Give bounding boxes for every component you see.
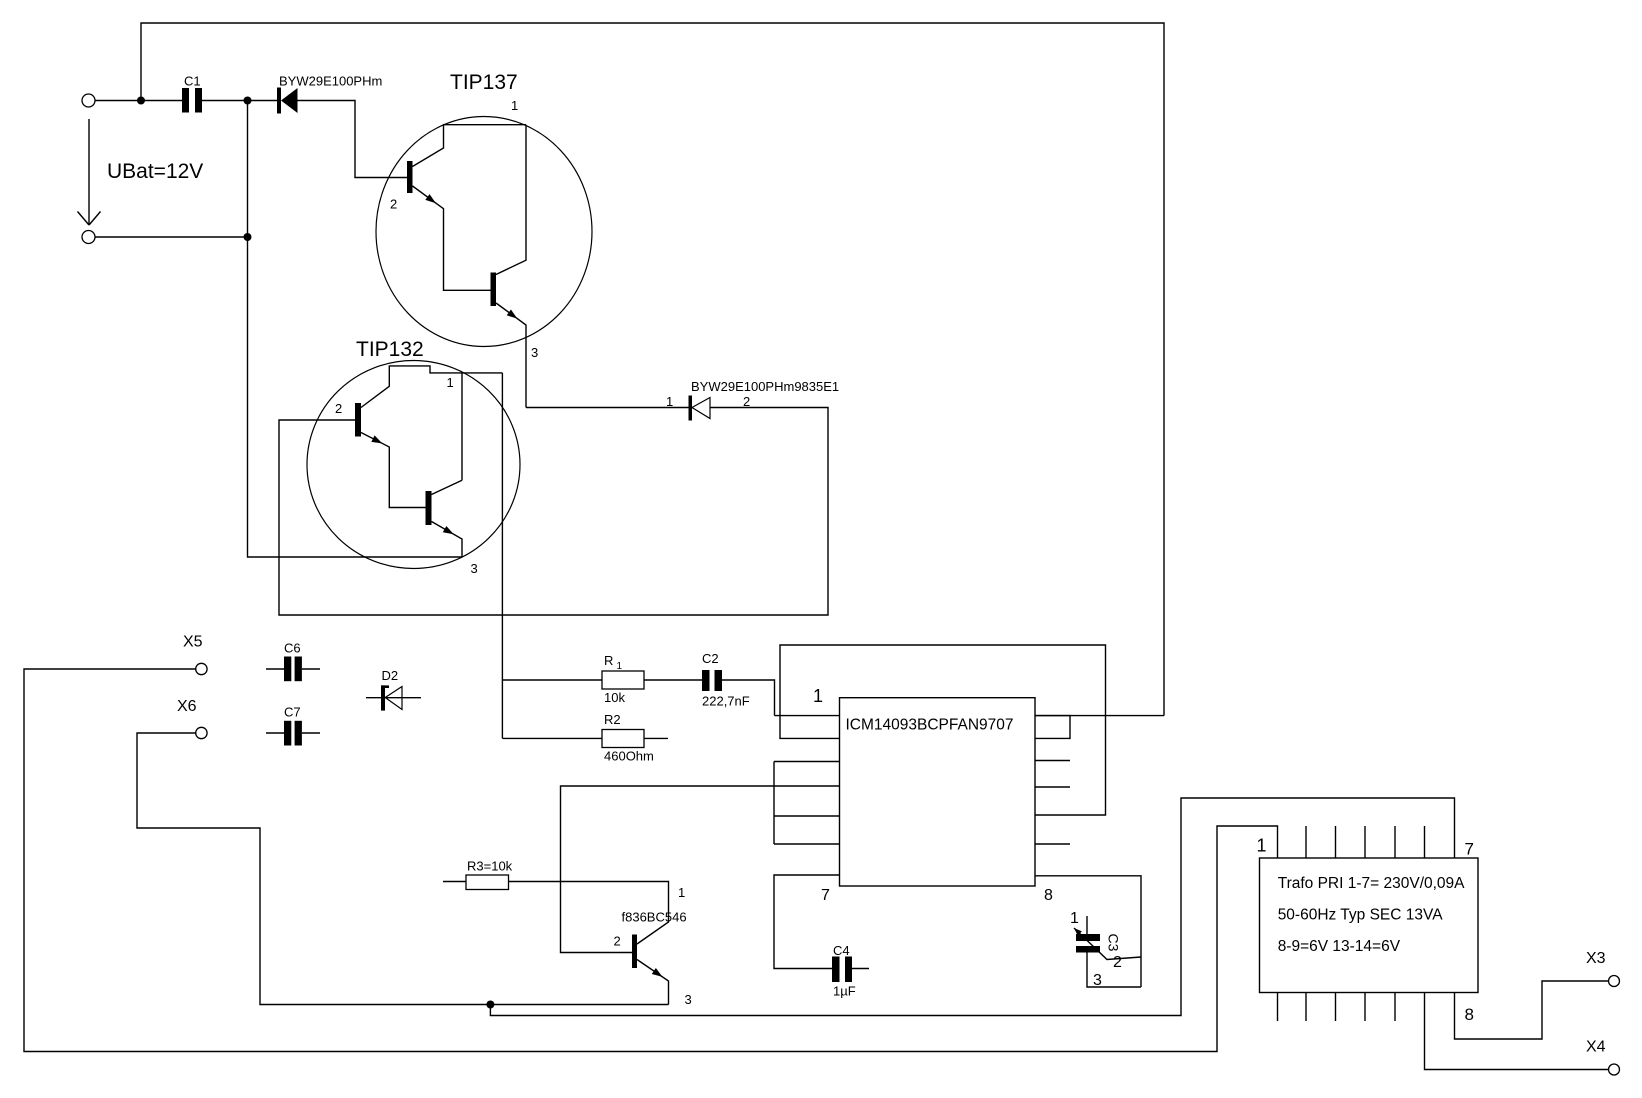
TIP132 Q2b emitter (pin 3) lead [432,522,463,558]
svg-text:222,7nF: 222,7nF [702,694,750,709]
IC left pin bus [773,762,775,845]
C6 stubs [266,668,284,670]
TIP132 collector rail [461,373,463,480]
TIP137 Q1b emitter (pin 3) lead [496,303,526,408]
TIP132 Q2a emitter arrow [371,435,384,446]
Q3 emitter arrow [652,968,665,980]
junction node after C1 [244,97,252,105]
svg-text:1: 1 [511,98,518,113]
TIP132 Q2b collector to rail [432,480,463,494]
junction node at UBat- rail [244,233,252,241]
wire Trafo pin 8 to X3 [1455,981,1609,1039]
TIP137 Q1a emitter arrow [425,194,438,206]
C3 bottom lead and wire [1087,953,1141,988]
diode D1 BYW29E100PHm (filled, cathode left) [277,88,281,114]
Q3 emitter lead [637,960,669,1005]
junction node Q3 emitter / X6 / Trafo7 net [486,1001,494,1009]
wire Trafo to X4 [1425,993,1609,1070]
svg-text:TIP132: TIP132 [356,338,424,361]
capacitor C7 [284,721,291,746]
svg-text:1: 1 [447,375,454,390]
TIP132 Q2a collector with pin 1 step lead [361,366,502,408]
svg-text:C2: C2 [702,651,719,666]
svg-text:50-60Hz Typ SEC 13VA: 50-60Hz Typ SEC 13VA [1278,907,1444,924]
Trafo bottom pin stubs [1277,993,1279,1022]
wire R1 to C2 [644,679,702,681]
svg-text:TIP137: TIP137 [450,71,518,94]
svg-text:8-9=6V 13-14=6V: 8-9=6V 13-14=6V [1278,938,1401,955]
svg-text:UBat=12V: UBat=12V [107,160,203,183]
TIP137 Q1b emitter arrow [507,309,520,321]
svg-text:BYW29E100PHm: BYW29E100PHm [279,74,382,89]
svg-text:7: 7 [1465,840,1474,859]
svg-text:1: 1 [666,394,673,409]
C3 wiper arrow [1072,926,1082,936]
terminal X3 [1609,976,1620,987]
resistor R1 body [602,671,644,689]
resistor R3 body [466,875,509,890]
svg-text:f836BC546: f836BC546 [622,910,687,925]
svg-text:3: 3 [531,345,538,360]
svg-text:3: 3 [471,561,478,576]
TIP132 inner transistor Q2a base bar [355,403,361,437]
TIP137 Q1b collector to collector rail [496,125,526,275]
wire top supply rail from C1 node to IC pin1 net [141,23,1164,716]
wire R2 right stub [644,737,668,739]
svg-text:D2: D2 [382,668,399,683]
svg-text:BYW29E100PHm9835E1: BYW29E100PHm9835E1 [691,379,839,394]
IC pin 7 lead to C4 [774,875,840,969]
wire TIP137 pin3 to diode BYW29E100PHm9835E1 [526,407,689,409]
resistor R2 body [602,730,644,748]
IC right pin U-link y716-y738 [1035,716,1070,739]
IC right pin lead y787 [1035,786,1070,788]
TIP137 inner transistor Q1a base bar [407,161,413,193]
TIP132 Q2b emitter arrow [443,526,456,537]
svg-text:R2: R2 [604,712,621,727]
wire UBat+ to C1 [95,100,182,102]
svg-text:2: 2 [1113,954,1122,971]
svg-text:460Ohm: 460Ohm [604,749,654,764]
svg-text:2: 2 [614,934,621,949]
wire D1 to TIP137 base (pin 2) [298,101,408,178]
Trafo top pin stubs [1305,826,1307,858]
svg-text:2: 2 [390,197,397,212]
resistor R3 left stub [443,881,466,883]
svg-text:X6: X6 [177,698,197,715]
terminal UBat- (battery negative) [82,231,95,244]
svg-text:R3=10k: R3=10k [467,859,513,874]
terminal X6 [196,727,207,738]
TIP132 inner transistor Q2b base bar [426,491,432,525]
IC right pin lead y716 [1035,715,1164,717]
wire R3 to Q3 collector [509,882,669,945]
svg-text:R: R [604,653,613,668]
IC left pin lead y816 [774,815,840,817]
trimmer capacitor C3 top plate [1076,934,1100,941]
svg-text:C7: C7 [284,705,301,720]
capacitor C2 [702,670,710,691]
svg-text:1: 1 [1257,836,1267,856]
svg-text:ICM14093BCPFAN9707: ICM14093BCPFAN9707 [846,716,1014,733]
TIP137 Q1a emitter to Q1b base [413,186,491,290]
diode BYW29E100PHm9835E1 (open triangle, cathode left) [689,396,693,421]
terminal X4 [1609,1064,1620,1075]
capacitor C4 [832,957,840,983]
svg-text:X4: X4 [1586,1039,1606,1056]
wire C2 to IC pin 1 [722,680,775,716]
svg-text:1: 1 [1070,910,1079,927]
svg-text:1: 1 [813,686,823,706]
svg-text:X3: X3 [1586,950,1606,967]
C3 top lead [1086,916,1088,934]
svg-text:3: 3 [1093,972,1102,989]
wire C1 to diode D1 [202,100,277,102]
wire C4 right stub [852,968,869,970]
transistor TIP137 envelope circle [376,117,592,347]
svg-text:C4: C4 [833,943,850,958]
IC right pin lead y760 [1035,760,1070,762]
svg-text:2: 2 [743,394,750,409]
diode D2 (open triangle, cathode left) [366,697,421,699]
svg-text:10k: 10k [604,690,625,705]
svg-text:8: 8 [1044,887,1053,904]
TIP137 inner transistor Q1b base bar [491,273,497,307]
trimmer capacitor C3 bottom plate [1076,946,1100,953]
svg-text:1: 1 [617,661,623,672]
junction node at C1 left / top rail [137,97,145,105]
transistor TIP132 envelope circle [307,361,520,569]
capacitor C6 [284,657,291,682]
svg-text:C6: C6 [284,641,301,656]
svg-text:C3: C3 [1106,934,1122,952]
svg-text:1: 1 [678,885,685,900]
svg-text:C1: C1 [184,74,201,89]
svg-text:X5: X5 [183,634,203,651]
svg-text:3: 3 [685,992,692,1007]
IC left pin lead y786 to Q3 base [561,786,840,953]
TIP137 Q1a collector to pin 1 top lead [413,125,527,167]
svg-text:2: 2 [335,401,342,416]
wire X5 to Trafo pin 1 [24,669,1278,1052]
wire TIP132 pin1 down to R1/R2 [501,373,503,739]
transformer T1 body [1260,858,1479,993]
wire to R1 [502,679,602,681]
IC left pin lead y762 [774,761,840,763]
IC right pin lead y844 [1035,843,1070,845]
battery polarity arrow [88,119,90,225]
TIP132 Q2a emitter to Q2b base [361,433,426,508]
IC left pin lead y844 [774,843,840,845]
C7 stubs [266,732,284,734]
svg-text:Trafo PRI 1-7= 230V/0,09A: Trafo PRI 1-7= 230V/0,09A [1278,875,1465,892]
wire junction to Trafo pin 7 [490,798,1454,1016]
terminal X5 [196,663,207,674]
terminal UBat+ (battery positive) [82,94,95,107]
wire negative rail down to TIP132 emitter [248,101,463,558]
svg-text:8: 8 [1465,1005,1474,1024]
svg-text:1µF: 1µF [833,984,856,999]
C3 wiper arm [1074,928,1141,960]
transistor Q3 f836BC546 base bar [632,935,637,969]
IC pin 1 lead [775,715,840,717]
svg-text:7: 7 [821,887,830,904]
op-amp/gate IC U1 body ICM14093BCPFAN9707 [840,698,1036,886]
IC feedback loop pin to pin (outer box) [780,645,1106,815]
wire diode to TIP132 base loop [279,408,828,616]
wire X6 to Q3 emitter node [137,733,669,1005]
wire UBat- to negative node [95,236,248,238]
wire to R2 [502,737,602,739]
IC pin 8 lead to C3 [1035,876,1141,987]
capacitor C1 [182,88,189,113]
